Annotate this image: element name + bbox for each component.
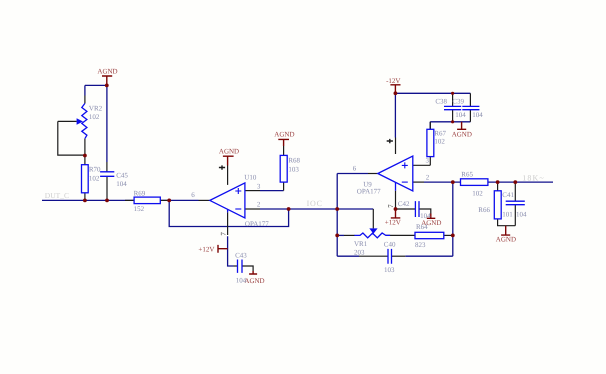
svg-text:U10: U10 bbox=[244, 173, 257, 181]
svg-text:3: 3 bbox=[426, 157, 430, 165]
svg-text:7: 7 bbox=[387, 204, 395, 208]
svg-text:AGND: AGND bbox=[97, 68, 117, 76]
svg-text:OPA177: OPA177 bbox=[357, 188, 381, 196]
svg-text:102: 102 bbox=[434, 138, 445, 146]
svg-text:DUT_C: DUT_C bbox=[45, 191, 69, 200]
svg-text:IOC: IOC bbox=[307, 199, 323, 208]
svg-text:OPA177: OPA177 bbox=[245, 220, 269, 228]
svg-text:104: 104 bbox=[455, 111, 466, 119]
svg-text:104: 104 bbox=[472, 111, 483, 119]
svg-text:AGND: AGND bbox=[219, 148, 239, 156]
svg-text:C42: C42 bbox=[398, 200, 410, 208]
svg-text:AGND: AGND bbox=[274, 131, 294, 139]
svg-text:104: 104 bbox=[420, 212, 431, 220]
svg-text:C40: C40 bbox=[384, 240, 396, 248]
svg-text:AGND: AGND bbox=[496, 236, 516, 244]
svg-text:C45: C45 bbox=[116, 171, 128, 179]
svg-text:C43: C43 bbox=[235, 251, 247, 259]
svg-text:R64: R64 bbox=[416, 223, 428, 231]
svg-text:+12V: +12V bbox=[198, 246, 214, 254]
svg-text:3: 3 bbox=[257, 183, 261, 191]
svg-text:6: 6 bbox=[191, 191, 195, 199]
svg-text:VR2: VR2 bbox=[89, 104, 103, 112]
svg-text:R69: R69 bbox=[134, 189, 146, 197]
svg-text:203: 203 bbox=[354, 249, 365, 257]
svg-text:2: 2 bbox=[426, 174, 430, 182]
svg-text:C39: C39 bbox=[452, 97, 464, 105]
svg-text:R70: R70 bbox=[89, 166, 101, 174]
svg-text:104: 104 bbox=[116, 180, 127, 188]
svg-text:VR1: VR1 bbox=[354, 240, 368, 248]
svg-text:102: 102 bbox=[89, 113, 100, 121]
svg-text:104: 104 bbox=[236, 277, 247, 285]
svg-text:AGND: AGND bbox=[244, 277, 264, 285]
svg-text:R65: R65 bbox=[461, 170, 473, 178]
svg-text:+12V: +12V bbox=[385, 219, 401, 227]
svg-text:-12V: -12V bbox=[386, 77, 400, 85]
svg-text:101: 101 bbox=[502, 211, 513, 219]
svg-text:104: 104 bbox=[516, 211, 527, 219]
svg-text:R66: R66 bbox=[478, 206, 490, 214]
svg-text:C41: C41 bbox=[502, 191, 514, 199]
svg-text:102: 102 bbox=[472, 190, 483, 198]
svg-text:103: 103 bbox=[288, 165, 299, 173]
svg-text:C38: C38 bbox=[435, 97, 447, 105]
svg-text:18K~: 18K~ bbox=[522, 173, 545, 182]
svg-text:102: 102 bbox=[89, 175, 100, 183]
svg-text:7: 7 bbox=[219, 232, 227, 236]
svg-text:R68: R68 bbox=[288, 157, 300, 165]
svg-text:823: 823 bbox=[415, 241, 426, 249]
svg-text:R67: R67 bbox=[434, 130, 446, 138]
svg-text:AGND: AGND bbox=[452, 130, 472, 138]
svg-text:152: 152 bbox=[134, 205, 145, 213]
svg-text:6: 6 bbox=[353, 164, 357, 172]
svg-text:2: 2 bbox=[257, 200, 261, 208]
svg-text:103: 103 bbox=[384, 266, 395, 274]
